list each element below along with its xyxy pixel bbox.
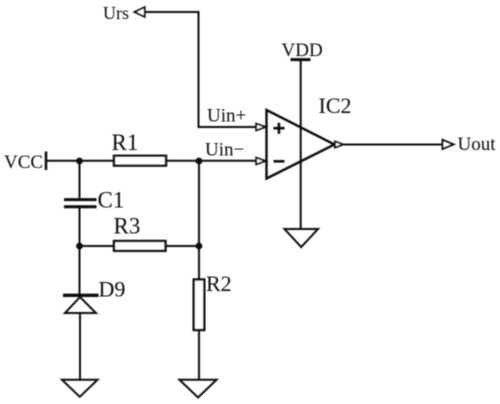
svg-text:R2: R2 xyxy=(206,271,232,296)
svg-text:Uin−: Uin− xyxy=(205,140,244,161)
svg-text:R3: R3 xyxy=(114,214,141,239)
svg-text:VDD: VDD xyxy=(282,40,323,61)
svg-text:D9: D9 xyxy=(99,277,126,302)
svg-text:C1: C1 xyxy=(98,188,125,213)
svg-text:VCC: VCC xyxy=(4,152,43,173)
svg-text:Uin+: Uin+ xyxy=(207,106,246,127)
svg-text:Uout: Uout xyxy=(458,134,497,155)
svg-text:IC2: IC2 xyxy=(319,93,352,118)
svg-text:R1: R1 xyxy=(112,130,139,155)
svg-text:Urs: Urs xyxy=(103,3,129,23)
